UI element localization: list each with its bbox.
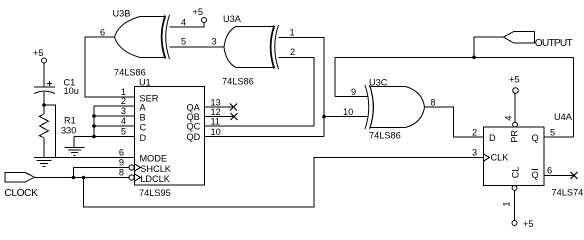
power +5 symbol top-left: [33, 48, 47, 63]
svg-text:PR: PR: [510, 130, 520, 143]
svg-text:8: 8: [431, 98, 436, 108]
svg-text:CLK: CLK: [491, 153, 510, 163]
svg-text:6: 6: [100, 28, 105, 38]
svg-text:5: 5: [181, 37, 186, 47]
svg-text:74LS86: 74LS86: [369, 131, 401, 141]
wire U4A Qbar pin6 no-connect: [544, 174, 574, 176]
output rail wire: [335, 56, 574, 58]
wire Q riser: [573, 57, 575, 137]
wire U1 QC pin11: [204, 125, 314, 127]
svg-text:2: 2: [290, 47, 295, 57]
wire U3B output pin6 to U1 SER pin1: [85, 37, 135, 97]
svg-text:1: 1: [290, 28, 295, 38]
svg-text:CL: CL: [511, 167, 521, 179]
svg-text:U3B: U3B: [113, 9, 131, 19]
svg-text:QD: QD: [187, 132, 201, 142]
svg-text:4: 4: [121, 116, 126, 126]
wire U1 QD pin10: [204, 135, 324, 137]
node dot clock-bottomrail: [82, 176, 86, 180]
svg-text:QB: QB: [187, 112, 200, 122]
svg-text:5: 5: [121, 127, 126, 137]
svg-text:+5: +5: [523, 219, 533, 229]
wire U3A pin1 from QD line: [279, 37, 325, 136]
power +5 below U4A CL: [512, 219, 533, 229]
xor gate U3C 74LS86: [365, 78, 425, 141]
wire CLOCK to LDCLK: [35, 177, 129, 179]
svg-text:8: 8: [119, 168, 124, 178]
connector CLOCK: [4, 172, 38, 199]
svg-text:10: 10: [211, 127, 221, 137]
wire branch to SHCLK: [74, 168, 129, 178]
xor gate U3A 74LS86 (mirrored): [222, 14, 279, 87]
wire C1 bottom to node: [43, 92, 45, 105]
svg-text:6: 6: [547, 166, 552, 176]
svg-text:SHCLK: SHCLK: [140, 164, 172, 174]
no-connect X pin12: [231, 113, 238, 120]
svg-text:74LS95: 74LS95: [139, 188, 171, 198]
svg-text:QC: QC: [187, 122, 201, 132]
wire node right and down to ground: [44, 105, 56, 158]
svg-text:+5: +5: [33, 48, 43, 58]
wire CL to +5 below: [514, 190, 516, 220]
power +5 above U4A PR: [509, 75, 519, 94]
svg-text:U3C: U3C: [369, 78, 388, 88]
svg-text:D: D: [140, 133, 147, 143]
svg-text:LDCLK: LDCLK: [140, 174, 170, 184]
wire U1 pin4 C: [94, 125, 135, 127]
svg-text:1: 1: [502, 201, 512, 206]
svg-text:4: 4: [181, 18, 186, 28]
pin 9 bubble: [129, 165, 134, 170]
svg-text:+5: +5: [193, 7, 203, 17]
no-connect X pin13: [230, 104, 237, 111]
svg-text:R1: R1: [64, 116, 76, 126]
svg-text:2: 2: [472, 127, 477, 137]
no-connect X pin6: [571, 172, 578, 179]
wire branch to U3C pin10: [324, 116, 369, 118]
wire U1 pin2 A: [94, 105, 135, 107]
wire U1 QB pin12 no-connect: [204, 116, 234, 118]
svg-text:A: A: [140, 102, 147, 112]
svg-text:10: 10: [343, 107, 353, 117]
connector OUTPUT: [504, 31, 573, 48]
node dot bus pin3: [92, 114, 96, 118]
ground under BCD bus: [65, 147, 85, 155]
CL bubble: [512, 186, 517, 191]
svg-text:6: 6: [119, 148, 124, 158]
svg-text:MODE: MODE: [140, 153, 168, 163]
IC U1 74LS95: [119, 78, 221, 198]
pin 9 clock marker: [135, 164, 141, 172]
svg-text:10u: 10u: [64, 86, 79, 96]
svg-text:CLOCK: CLOCK: [4, 188, 38, 199]
node junction dot: [42, 103, 46, 107]
wire ABCD bus vertical: [93, 106, 95, 137]
node dot QD branch: [322, 115, 326, 119]
svg-text:B: B: [140, 112, 146, 122]
node dot bus pin4: [92, 124, 96, 128]
svg-text:U1: U1: [139, 78, 151, 88]
svg-text:3: 3: [472, 148, 477, 158]
pin 8 bubble: [129, 175, 134, 180]
wire MODE pin6 to ground: [34, 157, 134, 159]
capacitor C1: [34, 78, 79, 97]
svg-text:9: 9: [351, 87, 356, 97]
svg-text:Q: Q: [532, 133, 539, 143]
+5 terminal circle: [42, 58, 47, 63]
svg-text:Q: Q: [532, 170, 539, 180]
resistor R1: [40, 105, 77, 158]
wire OUTPUT drop: [474, 37, 504, 57]
wire U1 QA pin13 no-connect: [204, 106, 233, 108]
pin 8 clock marker: [135, 174, 141, 182]
PR bubble: [513, 122, 518, 127]
wire D down to ground: [73, 137, 75, 148]
wire U3C output pin8 to U4A D: [425, 107, 484, 137]
wire U3A output pin3 to U3B pin5: [170, 46, 225, 48]
xor gate U3B 74LS86 (mirrored): [113, 9, 170, 78]
svg-text:330: 330: [61, 126, 76, 136]
wire U1 pin5 D: [74, 136, 135, 138]
node dot output rail: [472, 56, 476, 60]
svg-text:OUTPUT: OUTPUT: [535, 38, 573, 49]
svg-text:C: C: [140, 122, 147, 132]
svg-text:QA: QA: [187, 103, 201, 113]
ground under R1: [37, 160, 52, 166]
svg-text:11: 11: [211, 117, 221, 127]
svg-text:4: 4: [504, 116, 514, 121]
svg-text:D: D: [489, 133, 496, 143]
wire +5 to C1: [43, 63, 45, 87]
node dot clock-shclk: [72, 176, 76, 180]
CLK label and marker: [484, 154, 490, 162]
svg-text:3: 3: [121, 106, 126, 116]
svg-text:5: 5: [550, 127, 555, 137]
node dot bus pin5: [92, 135, 96, 139]
svg-text:U4A: U4A: [554, 112, 573, 122]
wire bottom rail to U4A CLK: [84, 158, 484, 208]
svg-text:74LS86: 74LS86: [222, 77, 254, 87]
wire +5 to PR bubble: [514, 93, 516, 122]
wire U1 pin3 B: [94, 115, 135, 117]
svg-text:12: 12: [211, 107, 221, 117]
wire U3C pin9 from output rail: [335, 96, 369, 98]
svg-text:+5: +5: [509, 75, 519, 85]
svg-text:U3A: U3A: [223, 14, 242, 24]
wire U3B pin4 to +5: [170, 23, 205, 28]
wire U4A Q pin5 to riser: [544, 136, 574, 138]
wire U3A pin2 from QC line: [279, 57, 315, 126]
svg-text:74LS86: 74LS86: [114, 68, 146, 78]
IC U4A 74LS74: [484, 112, 584, 207]
power +5 at U3B pin4: [193, 7, 207, 23]
svg-text:9: 9: [119, 158, 124, 168]
svg-text:74LS74: 74LS74: [552, 188, 584, 198]
svg-text:13: 13: [211, 98, 221, 108]
svg-text:3: 3: [212, 37, 217, 47]
